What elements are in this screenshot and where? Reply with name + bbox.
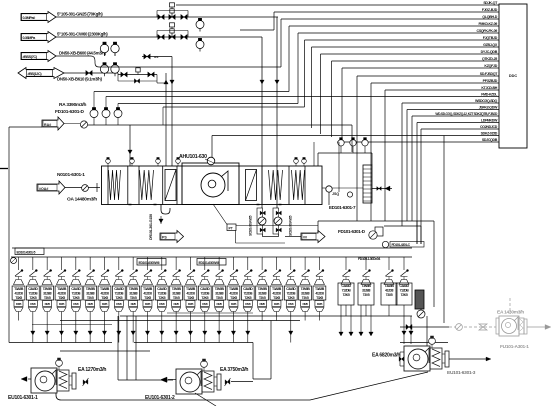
svg-text:T3A5B: T3A5B bbox=[186, 287, 196, 291]
svg-text:DM5: DM5 bbox=[245, 302, 251, 306]
svg-text:412D8: 412D8 bbox=[315, 292, 324, 296]
svg-text:DM5: DM5 bbox=[159, 302, 165, 306]
svg-text:DM5: DM5 bbox=[274, 302, 280, 306]
svg-text:FD101-6301-D: FD101-6301-D bbox=[55, 109, 85, 115]
svg-text:T2K5: T2K5 bbox=[201, 296, 208, 300]
svg-text:T2K5: T2K5 bbox=[287, 296, 294, 300]
svg-text:T3N5B: T3N5B bbox=[215, 287, 225, 291]
svg-text:T3A5B: T3A5B bbox=[14, 287, 24, 291]
svg-text:ED101-6301-7: ED101-6301-7 bbox=[329, 205, 356, 210]
svg-text:C3A5D: C3A5D bbox=[341, 284, 351, 288]
svg-text:T3V5: T3V5 bbox=[173, 296, 180, 300]
svg-text:312B8: 312B8 bbox=[43, 292, 52, 296]
svg-text:OA 14480m3/h: OA 14480m3/h bbox=[67, 196, 97, 202]
svg-text:FU101-A301-1: FU101-A301-1 bbox=[500, 344, 529, 350]
svg-text:T3X5: T3X5 bbox=[386, 293, 393, 297]
svg-text:T2K5: T2K5 bbox=[401, 293, 408, 297]
svg-text:T3A5B: T3A5B bbox=[272, 287, 282, 291]
svg-text:712DB: 712DB bbox=[200, 292, 210, 296]
svg-text:T3X5: T3X5 bbox=[144, 296, 151, 300]
svg-text:FD101-4301-C: FD101-4301-C bbox=[392, 243, 411, 247]
svg-text:ED101-6300W6: ED101-6300W6 bbox=[139, 261, 160, 265]
svg-text:T3N5B: T3N5B bbox=[258, 287, 268, 291]
svg-text:T2K5: T2K5 bbox=[72, 296, 79, 300]
svg-text:412D8: 412D8 bbox=[14, 292, 23, 296]
svg-text:T2K5: T2K5 bbox=[343, 293, 350, 297]
svg-text:DN50-XB-B610 (9.1m3/h): DN50-XB-B610 (9.1m3/h) bbox=[57, 77, 102, 82]
svg-text:DYJC-QDB: DYJC-QDB bbox=[481, 50, 498, 54]
svg-text:412D8: 412D8 bbox=[229, 292, 238, 296]
svg-text:WSDCGQ-SDQ: WSDCGQ-SDQ bbox=[475, 99, 498, 103]
svg-text:#OA#: #OA# bbox=[39, 187, 48, 191]
svg-text:FMKD-KZ-09: FMKD-KZ-09 bbox=[478, 22, 497, 26]
svg-text:EA 1430m3/h: EA 1430m3/h bbox=[497, 310, 524, 316]
svg-text:312B8: 312B8 bbox=[258, 292, 267, 296]
svg-text:T2K5: T2K5 bbox=[115, 296, 122, 300]
svg-text:SDKZ-015D: SDKZ-015D bbox=[481, 132, 498, 136]
svg-text:T3A5B: T3A5B bbox=[143, 287, 153, 291]
svg-text:EU101-6301-2: EU101-6301-2 bbox=[145, 395, 175, 401]
svg-text:C3A5D: C3A5D bbox=[71, 287, 81, 291]
svg-text:412D8: 412D8 bbox=[272, 292, 281, 296]
svg-text:EU101-6301-3: EU101-6301-3 bbox=[447, 370, 476, 376]
svg-text:C3A5D: C3A5D bbox=[157, 287, 167, 291]
svg-text:DM5: DM5 bbox=[59, 302, 65, 306]
svg-text:412D8: 412D8 bbox=[143, 292, 152, 296]
svg-text:JSFKZ-QDW: JSFKZ-QDW bbox=[479, 106, 498, 110]
svg-text:T3A5B: T3A5B bbox=[385, 284, 395, 288]
svg-text:JSQ: JSQ bbox=[332, 192, 339, 196]
svg-text:C3A5D: C3A5D bbox=[114, 287, 124, 291]
svg-text:DN50-XB-B600 (44.5m3/h): DN50-XB-B600 (44.5m3/h) bbox=[59, 50, 107, 55]
svg-text:SD-FJSDQT: SD-FJSDQT bbox=[480, 72, 498, 76]
svg-text:DM5: DM5 bbox=[288, 302, 294, 306]
svg-text:412D8: 412D8 bbox=[186, 292, 195, 296]
svg-text:DM5: DM5 bbox=[303, 302, 309, 306]
svg-text:712DB: 712DB bbox=[71, 292, 81, 296]
svg-text:412D8: 412D8 bbox=[57, 292, 66, 296]
svg-text:QLQBH-D: QLQBH-D bbox=[482, 15, 497, 19]
svg-text:DM5: DM5 bbox=[217, 302, 223, 306]
svg-text:N0101-6301-1: N0101-6301-1 bbox=[57, 172, 85, 178]
svg-text:DM5: DM5 bbox=[260, 302, 266, 306]
svg-text:SDJCQDB: SDJCQDB bbox=[482, 138, 498, 142]
svg-text:T3N5B: T3N5B bbox=[362, 284, 372, 288]
svg-text:312B8: 312B8 bbox=[362, 289, 371, 293]
svg-text:T3X5: T3X5 bbox=[101, 296, 108, 300]
svg-text:312B8: 312B8 bbox=[129, 292, 138, 296]
svg-text:C3A5D: C3A5D bbox=[286, 287, 296, 291]
svg-text:5"105-301-CW60 (2300Kg/h): 5"105-301-CW60 (2300Kg/h) bbox=[57, 31, 108, 36]
svg-text:312B8: 312B8 bbox=[215, 292, 224, 296]
svg-text:ED101-6301-5: ED101-6301-5 bbox=[17, 250, 36, 254]
svg-text:T3V5: T3V5 bbox=[44, 296, 51, 300]
svg-text:DM5: DM5 bbox=[231, 302, 237, 306]
svg-text:T3A5B: T3A5B bbox=[229, 287, 239, 291]
svg-text:T3N5B: T3N5B bbox=[172, 287, 182, 291]
svg-text:DM5: DM5 bbox=[131, 302, 137, 306]
svg-text:T3X5: T3X5 bbox=[58, 296, 65, 300]
svg-text:T3X5: T3X5 bbox=[230, 296, 237, 300]
svg-text:DM5: DM5 bbox=[202, 302, 208, 306]
svg-text:SC101-301-W25: SC101-301-W25 bbox=[289, 215, 293, 236]
svg-text:T3A5B: T3A5B bbox=[100, 287, 110, 291]
svg-text:RA 3390m3/h: RA 3390m3/h bbox=[59, 102, 87, 108]
svg-text:#BSS(7C): #BSS(7C) bbox=[23, 55, 38, 59]
svg-text:T3V5: T3V5 bbox=[130, 296, 137, 300]
svg-text:AHU101-630: AHU101-630 bbox=[179, 154, 207, 160]
svg-text:DM5: DM5 bbox=[45, 302, 51, 306]
svg-text:KTJCD-BH: KTJCD-BH bbox=[481, 86, 497, 90]
svg-text:312B8: 312B8 bbox=[86, 292, 95, 296]
svg-text:ED101-6300W8: ED101-6300W8 bbox=[199, 261, 220, 265]
svg-text:T3X5: T3X5 bbox=[187, 296, 194, 300]
svg-text:T2K5: T2K5 bbox=[244, 296, 251, 300]
svg-text:712DB: 712DB bbox=[29, 292, 39, 296]
svg-text:RA#: RA# bbox=[44, 123, 51, 127]
svg-text:KZQFJD: KZQFJD bbox=[484, 64, 497, 68]
svg-text:»»: »» bbox=[154, 55, 159, 60]
svg-text:CO2NDJCD: CO2NDJCD bbox=[480, 125, 498, 129]
svg-text:712DB: 712DB bbox=[243, 292, 253, 296]
svg-text:GZBJ-QX: GZBJ-QX bbox=[483, 43, 498, 47]
svg-text:#BS(12C): #BS(12C) bbox=[28, 72, 43, 76]
svg-text:EA 1270m3/h: EA 1270m3/h bbox=[78, 367, 106, 373]
svg-text:EA 3750m3/h: EA 3750m3/h bbox=[220, 367, 248, 373]
svg-text:0.36MPa: 0.36MPa bbox=[23, 36, 37, 40]
svg-text:T3V5: T3V5 bbox=[302, 296, 309, 300]
svg-text:DM5: DM5 bbox=[145, 302, 151, 306]
svg-text:DM5: DM5 bbox=[188, 302, 194, 306]
svg-text:T3X5: T3X5 bbox=[316, 296, 323, 300]
svg-text:FD101-6301-D: FD101-6301-D bbox=[338, 229, 366, 234]
svg-text:T3X5: T3X5 bbox=[15, 296, 22, 300]
svg-text:DM5: DM5 bbox=[102, 302, 108, 306]
svg-text:DM5: DM5 bbox=[73, 302, 79, 306]
svg-text:T3V5: T3V5 bbox=[216, 296, 223, 300]
svg-text:SDJK-QT: SDJK-QT bbox=[483, 1, 498, 5]
svg-text:T2K5: T2K5 bbox=[158, 296, 165, 300]
svg-text:412D8: 412D8 bbox=[385, 289, 394, 293]
svg-text:C3A5D: C3A5D bbox=[399, 284, 409, 288]
svg-text:EA 6820m3/h: EA 6820m3/h bbox=[372, 353, 400, 359]
svg-text:T3A5B: T3A5B bbox=[57, 287, 67, 291]
svg-text:WD-SD-CGQ, SDKZQ-12, KZT SDKZQ: WD-SD-CGQ, SDKZQ-12, KZT SDKZQTB, FJBJD bbox=[435, 112, 498, 116]
svg-text:712DB: 712DB bbox=[114, 292, 124, 296]
svg-text:412D8: 412D8 bbox=[100, 292, 109, 296]
svg-text:T3V5: T3V5 bbox=[87, 296, 94, 300]
svg-text:C3A5D: C3A5D bbox=[28, 287, 38, 291]
svg-text:DM5: DM5 bbox=[88, 302, 94, 306]
svg-text:712DB: 712DB bbox=[157, 292, 167, 296]
svg-text:DR101-301-G150: DR101-301-G150 bbox=[149, 214, 153, 240]
svg-text:T2K5: T2K5 bbox=[29, 296, 36, 300]
svg-text:DM5: DM5 bbox=[317, 302, 323, 306]
svg-text:T3N5B: T3N5B bbox=[129, 287, 139, 291]
svg-text:T3N5B: T3N5B bbox=[86, 287, 96, 291]
svg-text:FJQTBJD: FJQTBJD bbox=[483, 36, 498, 40]
svg-text:T3A5B: T3A5B bbox=[315, 287, 325, 291]
svg-text:5"105-301-GN25 (70Kg/h): 5"105-301-GN25 (70Kg/h) bbox=[57, 11, 103, 16]
svg-text:DM5: DM5 bbox=[30, 302, 36, 306]
svg-text:312B8: 312B8 bbox=[172, 292, 181, 296]
svg-text:712DB: 712DB bbox=[286, 292, 296, 296]
svg-text:T3V5: T3V5 bbox=[363, 293, 370, 297]
svg-text:CSQFK-FK-09: CSQFK-FK-09 bbox=[477, 29, 498, 33]
svg-text:LDFMKDW: LDFMKDW bbox=[481, 119, 498, 123]
svg-text:SC101-301-W25: SC101-301-W25 bbox=[249, 215, 253, 236]
svg-text:T3V5: T3V5 bbox=[259, 296, 266, 300]
svg-text:FJGZ-BJD: FJGZ-BJD bbox=[482, 8, 498, 12]
svg-text:712DB: 712DB bbox=[342, 289, 352, 293]
svg-text:QTKZD-25: QTKZD-25 bbox=[482, 57, 497, 61]
svg-text:DM5: DM5 bbox=[16, 302, 22, 306]
svg-text:EU101-6301-1: EU101-6301-1 bbox=[8, 395, 38, 401]
svg-text:T3X5: T3X5 bbox=[273, 296, 280, 300]
svg-text:DDC: DDC bbox=[509, 74, 517, 78]
svg-text:T3N5B: T3N5B bbox=[301, 287, 311, 291]
svg-text:DM5: DM5 bbox=[174, 302, 180, 306]
svg-text:C3A5D: C3A5D bbox=[200, 287, 210, 291]
svg-text:PS: PS bbox=[162, 236, 167, 240]
svg-text:##: ## bbox=[303, 236, 307, 240]
svg-text:PFGZBJD: PFGZBJD bbox=[483, 79, 498, 83]
svg-text:C3A5D: C3A5D bbox=[243, 287, 253, 291]
svg-text:712DB: 712DB bbox=[400, 289, 410, 293]
svg-text:T3N5B: T3N5B bbox=[43, 287, 53, 291]
svg-text:0.3MPa#: 0.3MPa# bbox=[23, 16, 37, 20]
svg-text:DM5: DM5 bbox=[116, 302, 122, 306]
svg-text:312B8: 312B8 bbox=[301, 292, 310, 296]
